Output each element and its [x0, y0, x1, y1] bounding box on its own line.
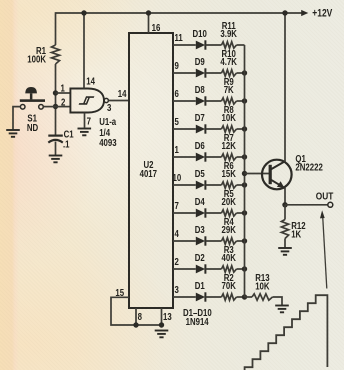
svg-text:15K: 15K	[222, 168, 237, 179]
svg-text:15: 15	[115, 287, 124, 298]
diode D1	[196, 293, 205, 302]
wire U2 pin 4 row	[173, 240, 196, 242]
op-amp U1-a 4093 NAND gate body	[70, 89, 104, 113]
svg-text:1: 1	[61, 82, 65, 93]
svg-text:1K: 1K	[291, 229, 302, 240]
svg-text:D9: D9	[195, 56, 205, 67]
resistor R1	[52, 45, 60, 64]
wire D1 to R2	[205, 296, 221, 298]
ground at S1	[6, 129, 20, 131]
svg-text:8: 8	[138, 311, 142, 322]
ground at U1 pin 7	[78, 128, 92, 130]
svg-text:+12V: +12V	[312, 8, 333, 20]
wire +12V top rail	[56, 12, 304, 14]
node bus junction row 10	[242, 182, 247, 187]
svg-text:100K: 100K	[27, 53, 46, 64]
wire D7 to R8	[205, 128, 221, 130]
diode D6	[196, 153, 205, 162]
diode D7	[196, 125, 205, 134]
svg-text:D6: D6	[195, 140, 205, 151]
svg-text:14: 14	[86, 76, 95, 87]
svg-text:4093: 4093	[99, 137, 116, 148]
svg-text:U1-a: U1-a	[99, 116, 116, 127]
svg-text:5: 5	[175, 116, 179, 127]
node bus junction row 5	[242, 126, 247, 131]
wire U2 pin 3 row	[173, 296, 196, 298]
svg-text:D5: D5	[195, 168, 205, 179]
svg-text:D7: D7	[195, 112, 205, 123]
wire U2 pin 9 row	[173, 72, 196, 74]
resistor R2	[222, 294, 237, 300]
wire gate pin 7 to ground	[84, 113, 86, 128]
svg-text:ND: ND	[27, 122, 39, 133]
wire OUT node to R12	[284, 205, 286, 220]
node junction pin1	[53, 90, 58, 95]
wire D2 to R3	[205, 268, 221, 270]
wire R11 to summing bus	[237, 44, 245, 46]
svg-text:3.9K: 3.9K	[220, 28, 237, 39]
diode D5	[196, 181, 205, 190]
wire U2 pin 1 row	[173, 156, 196, 158]
node rail/collector junction	[282, 10, 287, 15]
wire R12 to ground	[284, 239, 286, 248]
wire pin 1 input	[56, 92, 72, 94]
svg-text:16: 16	[152, 22, 161, 33]
wire D8 to R9	[205, 100, 221, 102]
resistor R5	[222, 210, 237, 216]
resistor R6	[222, 182, 237, 188]
diode D4	[196, 209, 205, 218]
node bus to base junction	[242, 171, 247, 176]
wire gate output pin 3 to U2 pin 14	[108, 100, 129, 102]
wire U2 pin 5 row	[173, 128, 196, 130]
wire pin 15 loop	[111, 297, 162, 325]
resistor R9	[222, 98, 237, 104]
diode D10	[196, 41, 205, 50]
svg-text:70K: 70K	[222, 280, 237, 291]
ground at U2 pin 13	[155, 330, 169, 332]
svg-text:10K: 10K	[255, 280, 270, 291]
node bus junction row 9	[242, 70, 247, 75]
svg-text:4: 4	[175, 228, 179, 239]
svg-text:10K: 10K	[222, 112, 237, 123]
ground at R13	[275, 305, 289, 307]
svg-text:D2: D2	[195, 252, 205, 263]
resistor R7	[222, 154, 237, 160]
svg-text:OUT: OUT	[316, 190, 334, 202]
svg-text:12K: 12K	[222, 140, 237, 151]
svg-text:D8: D8	[195, 84, 205, 95]
diode D3	[196, 237, 205, 246]
capacitor C1	[48, 135, 63, 137]
wire from rail corner down to R1	[55, 12, 57, 45]
wire R6 to summing bus	[237, 184, 245, 186]
OUT terminal	[328, 202, 333, 207]
resistor R3	[222, 266, 237, 272]
ground at C1	[49, 155, 63, 157]
transistor Q1 2N2222	[262, 160, 292, 190]
wire summing bus vertical	[244, 45, 246, 297]
wire S1 left terminal to ground	[13, 107, 20, 130]
svg-text:29K: 29K	[222, 224, 237, 235]
wire U2 pin 6 row	[173, 100, 196, 102]
wire U2 pin 10 row	[173, 184, 196, 186]
wire R1 to C1	[55, 64, 57, 135]
svg-text:6: 6	[175, 88, 179, 99]
wire D6 to R7	[205, 156, 221, 158]
+12V power arrow	[301, 10, 308, 16]
wire bus to Q1 base	[245, 173, 271, 175]
staircase output waveform	[245, 295, 328, 371]
U1-a output inversion bubble	[104, 98, 108, 102]
node junction pin2/S1	[53, 104, 58, 109]
svg-text:D1: D1	[195, 280, 205, 291]
node bus junction row 4	[242, 238, 247, 243]
node pin 8 junction	[133, 322, 138, 327]
wire R4 to summing bus	[237, 240, 245, 242]
wire R5 to summing bus	[237, 212, 245, 214]
node pin 13 junction	[159, 322, 164, 327]
wire R7 to summing bus	[237, 156, 245, 158]
svg-text:1: 1	[175, 144, 179, 155]
svg-text:13: 13	[163, 311, 172, 322]
svg-text:20K: 20K	[222, 196, 237, 207]
wire R8 to summing bus	[237, 128, 245, 130]
node bus junction row 7	[242, 210, 247, 215]
wire OUT	[285, 204, 328, 206]
IC U2 4017 body	[129, 33, 173, 308]
svg-text:4.7K: 4.7K	[220, 56, 237, 67]
wire R3 to summing bus	[237, 268, 245, 270]
wire U2 pin 7 row	[173, 212, 196, 214]
svg-text:D3: D3	[195, 224, 205, 235]
svg-text:11: 11	[175, 32, 183, 43]
wire D3 to R4	[205, 240, 221, 242]
diode D2	[196, 265, 205, 274]
resistor R4	[222, 238, 237, 244]
svg-text:9: 9	[175, 60, 179, 71]
wire R2 to summing bus	[237, 296, 245, 298]
node bus junction row 6	[242, 98, 247, 103]
diode D8	[196, 97, 205, 106]
svg-text:2N2222: 2N2222	[295, 161, 322, 172]
annotation arrow staircase to OUT	[323, 217, 327, 289]
wire Q1 emitter down to OUT node	[284, 188, 286, 205]
wire D5 to R6	[205, 184, 221, 186]
wire pin 16 to rail	[148, 13, 150, 33]
wire pin 13 to ground	[161, 308, 163, 325]
U1-a schmitt trigger hysteresis symbol	[79, 97, 94, 104]
node OUT junction	[282, 202, 287, 207]
wire D9 to R10	[205, 72, 221, 74]
wire gate pin 14 supply from rail	[83, 13, 85, 89]
switch S1 left terminal	[20, 105, 25, 110]
wire R9 to summing bus	[237, 100, 245, 102]
wire bus to R13	[245, 296, 253, 298]
svg-text:3: 3	[175, 284, 179, 295]
svg-text:D10: D10	[193, 28, 207, 39]
svg-text:7: 7	[87, 116, 91, 127]
resistor R12	[281, 220, 288, 239]
svg-text:2: 2	[175, 256, 179, 267]
wire pin 8 to ground rail	[135, 308, 137, 325]
resistor R13	[252, 294, 273, 300]
svg-text:2: 2	[61, 97, 65, 108]
node rail/pin16 junction	[146, 10, 151, 15]
wire S1 right terminal to node	[43, 106, 55, 108]
svg-text:7K: 7K	[224, 84, 235, 95]
svg-text:4017: 4017	[140, 168, 157, 179]
wire U2 pin 11 row	[173, 44, 196, 46]
node bus junction row 1	[242, 154, 247, 159]
svg-text:40K: 40K	[222, 252, 237, 263]
node bus junction row 2	[242, 266, 247, 271]
switch S1 contact bar	[20, 99, 45, 102]
svg-text:7: 7	[175, 200, 179, 211]
wire D10 to R11	[205, 44, 221, 46]
svg-text:D4: D4	[195, 196, 205, 207]
resistor R11	[222, 42, 237, 48]
svg-text:.1: .1	[63, 139, 70, 150]
wire Q1 collector to rail	[284, 13, 286, 162]
wire R10 to summing bus	[237, 72, 245, 74]
resistor R8	[222, 126, 237, 132]
wire U2 pin 2 row	[173, 268, 196, 270]
switch S1 right terminal	[39, 105, 44, 110]
wire C1 to ground	[55, 142, 57, 156]
wire R13 to ground	[273, 297, 283, 305]
resistor R10	[222, 70, 237, 76]
node bus junction row 3	[242, 294, 247, 299]
wire D4 to R5	[205, 212, 221, 214]
svg-text:3: 3	[107, 102, 111, 113]
diode D9	[196, 69, 205, 78]
ground at R12	[278, 247, 292, 249]
node rail/pin14 junction	[81, 10, 86, 15]
switch S1 pushbutton cap	[25, 87, 37, 93]
wire pin 2 input	[56, 106, 72, 108]
svg-text:1N914: 1N914	[186, 316, 209, 327]
svg-text:10: 10	[173, 172, 182, 183]
svg-text:14: 14	[118, 88, 127, 99]
